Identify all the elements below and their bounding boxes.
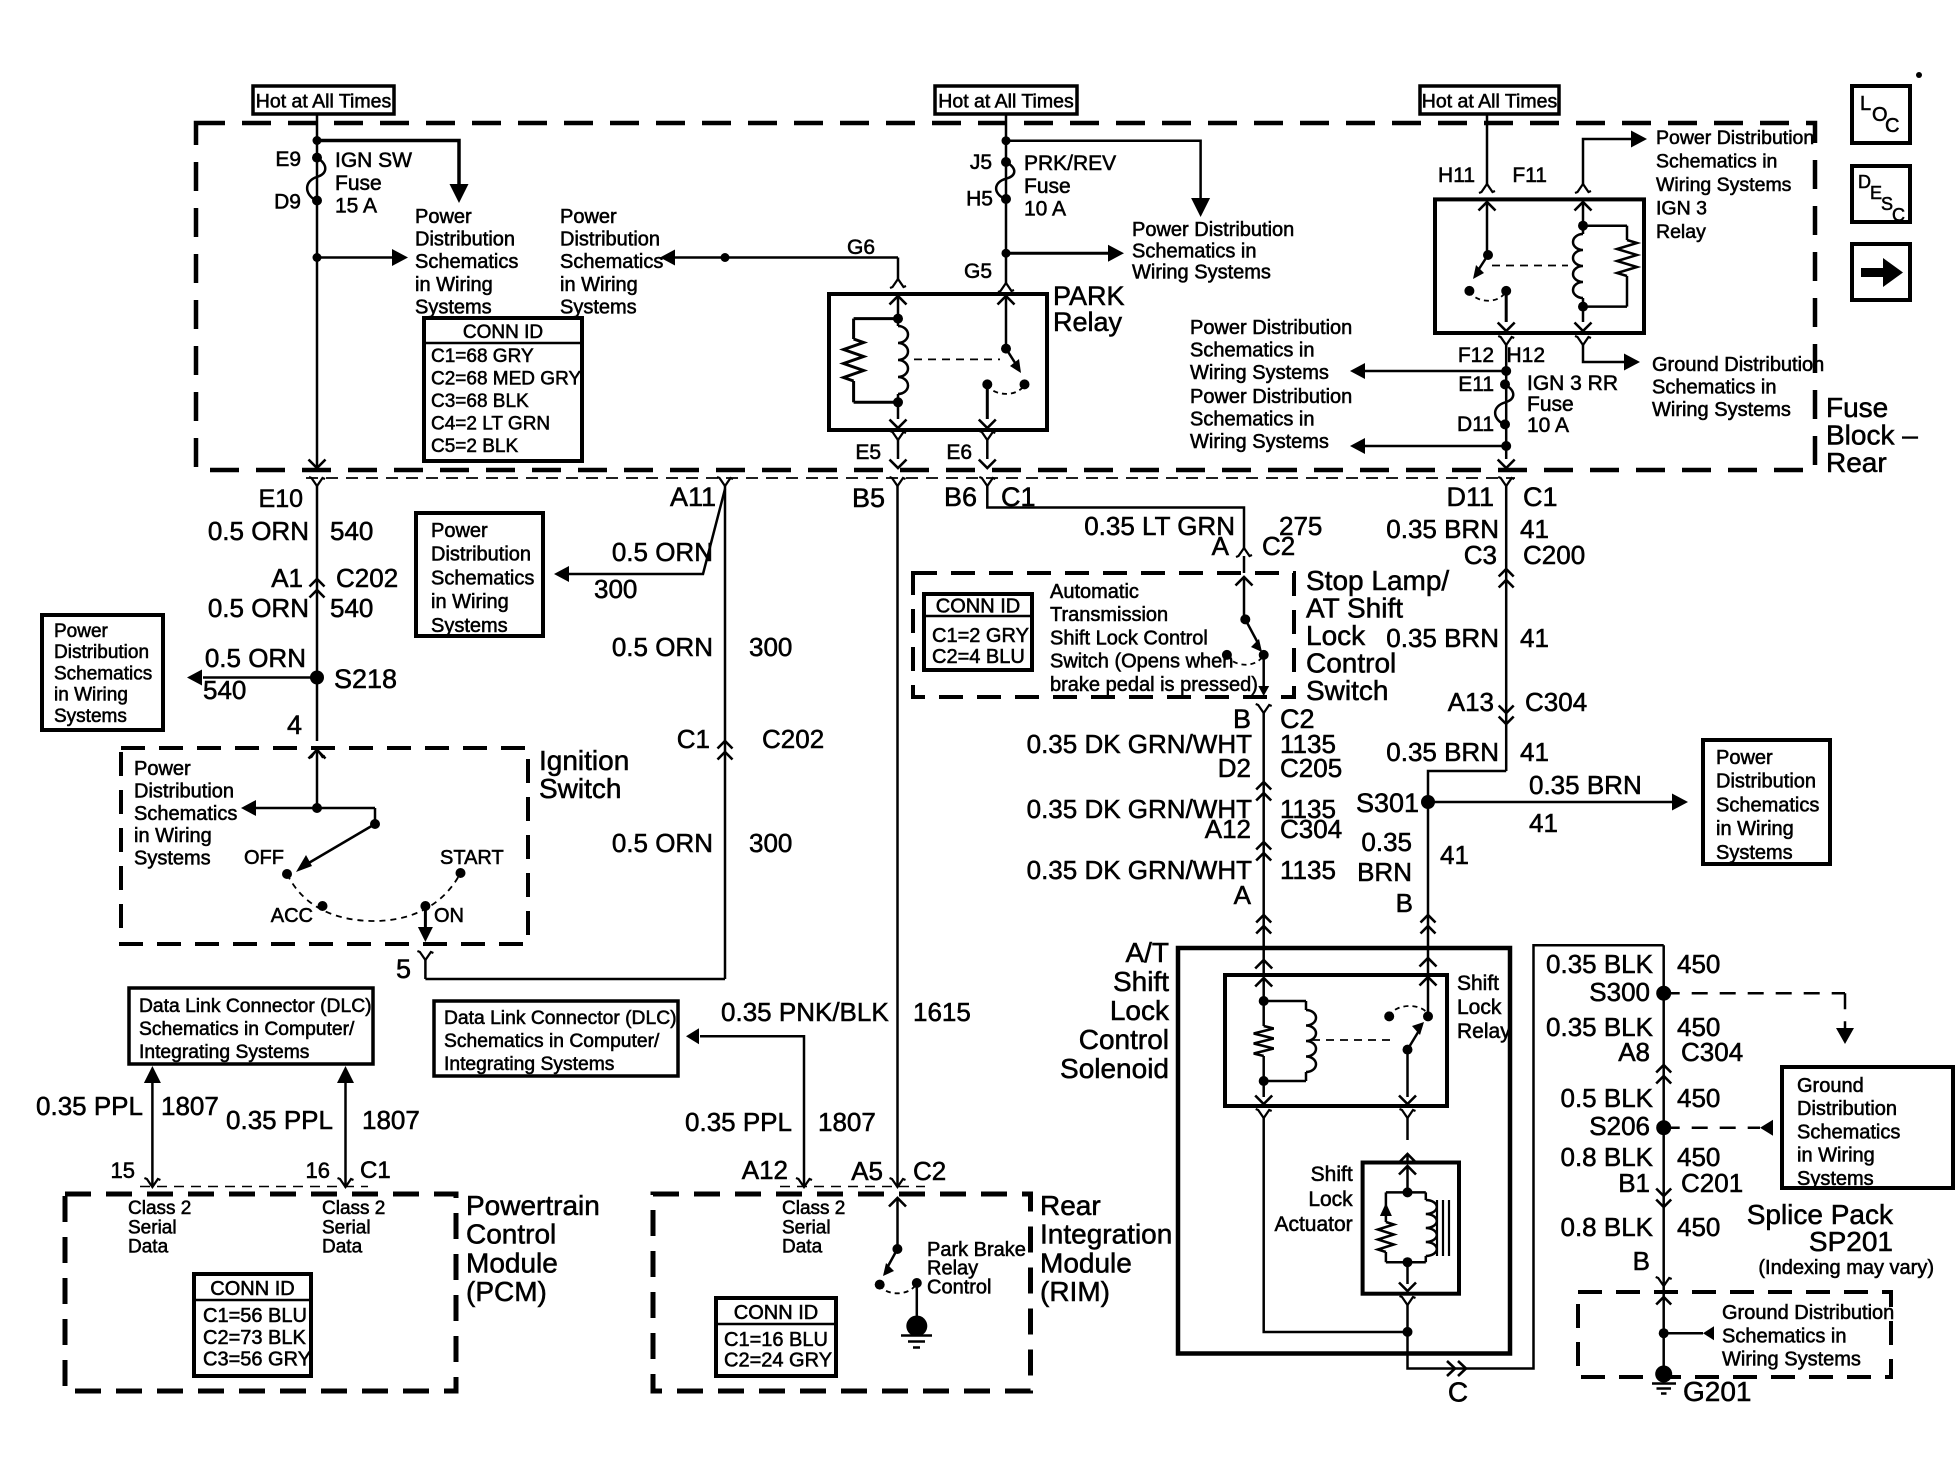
svg-text:Fuse: Fuse	[335, 172, 382, 195]
svg-text:41: 41	[1520, 623, 1549, 653]
svg-text:Fuse: Fuse	[1826, 392, 1888, 423]
svg-text:ON: ON	[434, 905, 464, 927]
svg-text:in Wiring: in Wiring	[1797, 1145, 1875, 1167]
svg-text:Integration: Integration	[1040, 1219, 1172, 1250]
svg-text:Stop Lamp/: Stop Lamp/	[1306, 565, 1449, 596]
svg-text:C1=16 BLU: C1=16 BLU	[724, 1329, 828, 1351]
svg-text:PRK/REV: PRK/REV	[1024, 152, 1116, 175]
svg-text:C1: C1	[677, 724, 710, 754]
svg-text:C1=2 GRY: C1=2 GRY	[932, 625, 1029, 647]
svg-text:J5: J5	[970, 151, 992, 174]
svg-text:Wiring Systems: Wiring Systems	[1190, 362, 1329, 384]
svg-text:C202: C202	[336, 563, 398, 593]
svg-text:C1: C1	[360, 1157, 391, 1184]
svg-text:Ground Distribution: Ground Distribution	[1652, 354, 1824, 376]
svg-text:Fuse: Fuse	[1527, 393, 1574, 416]
svg-text:C1: C1	[1523, 482, 1558, 512]
svg-text:Wiring Systems: Wiring Systems	[1132, 262, 1271, 284]
svg-text:in Wiring: in Wiring	[431, 591, 509, 613]
svg-text:Power Distribution: Power Distribution	[1656, 127, 1814, 149]
svg-text:Serial: Serial	[128, 1217, 177, 1238]
svg-text:D2: D2	[1218, 753, 1251, 783]
svg-text:Systems: Systems	[54, 706, 127, 727]
svg-text:300: 300	[749, 632, 792, 662]
svg-text:Power Distribution: Power Distribution	[1190, 386, 1352, 408]
svg-text:C4=2 LT GRN: C4=2 LT GRN	[431, 414, 550, 435]
svg-text:in Wiring: in Wiring	[415, 274, 493, 296]
svg-text:Fuse: Fuse	[1024, 175, 1071, 198]
svg-text:Data: Data	[128, 1237, 169, 1258]
svg-text:S301: S301	[1356, 788, 1419, 818]
svg-text:Schematics: Schematics	[1716, 794, 1819, 816]
svg-text:E6: E6	[946, 441, 972, 464]
svg-text:CONN ID: CONN ID	[210, 1278, 294, 1300]
svg-text:S206: S206	[1589, 1111, 1650, 1141]
svg-text:1807: 1807	[362, 1105, 420, 1135]
svg-text:Integrating Systems: Integrating Systems	[139, 1042, 309, 1063]
svg-text:Schematics: Schematics	[134, 803, 237, 825]
svg-text:S218: S218	[334, 664, 397, 694]
svg-text:15 A: 15 A	[335, 195, 377, 218]
svg-text:C304: C304	[1280, 814, 1342, 844]
svg-text:Serial: Serial	[322, 1217, 371, 1238]
svg-text:300: 300	[749, 828, 792, 858]
svg-text:Distribution: Distribution	[415, 229, 515, 251]
svg-text:A8: A8	[1618, 1037, 1650, 1067]
svg-text:0.35 DK GRN/WHT: 0.35 DK GRN/WHT	[1027, 855, 1252, 885]
svg-text:C5=2 BLK: C5=2 BLK	[431, 436, 518, 457]
svg-text:F12: F12	[1458, 344, 1494, 367]
svg-text:Schematics: Schematics	[431, 567, 534, 589]
svg-text:16: 16	[306, 1158, 330, 1183]
svg-text:0.35: 0.35	[1361, 827, 1412, 857]
svg-text:540: 540	[330, 516, 373, 546]
svg-text:Schematics in: Schematics in	[1722, 1325, 1847, 1347]
svg-text:C2: C2	[913, 1156, 946, 1186]
svg-text:Shift: Shift	[1311, 1163, 1353, 1186]
svg-text:Control: Control	[1079, 1024, 1169, 1055]
svg-text:Schematics in: Schematics in	[1656, 151, 1777, 173]
svg-text:Switch (Opens when: Switch (Opens when	[1050, 651, 1233, 673]
svg-text:Power Distribution: Power Distribution	[1132, 219, 1294, 241]
svg-text:Schematics in Computer/: Schematics in Computer/	[139, 1019, 355, 1040]
svg-text:0.35 PPL: 0.35 PPL	[226, 1105, 333, 1135]
svg-text:15: 15	[111, 1158, 135, 1183]
svg-text:Shift: Shift	[1113, 966, 1169, 997]
svg-text:Module: Module	[1040, 1247, 1132, 1278]
svg-text:5: 5	[396, 954, 411, 984]
svg-text:C2=24 GRY: C2=24 GRY	[724, 1350, 832, 1372]
svg-text:IGN SW: IGN SW	[335, 149, 412, 172]
svg-text:Actuator: Actuator	[1274, 1213, 1352, 1236]
svg-text:0.5 ORN: 0.5 ORN	[612, 828, 713, 858]
svg-text:E9: E9	[275, 148, 301, 171]
svg-text:B1: B1	[1618, 1168, 1650, 1198]
svg-text:Powertrain: Powertrain	[466, 1190, 600, 1221]
svg-text:Solenoid: Solenoid	[1060, 1053, 1169, 1084]
svg-text:Data: Data	[782, 1237, 823, 1258]
svg-text:Data: Data	[322, 1237, 363, 1258]
svg-text:CONN ID: CONN ID	[734, 1302, 818, 1324]
svg-text:C3=68 BLK: C3=68 BLK	[431, 391, 529, 412]
svg-text:Wiring Systems: Wiring Systems	[1190, 431, 1329, 453]
svg-text:H5: H5	[966, 188, 993, 211]
svg-text:A: A	[1234, 880, 1252, 910]
svg-text:540: 540	[203, 675, 246, 705]
svg-text:ACC: ACC	[271, 905, 313, 927]
svg-text:(RIM): (RIM)	[1040, 1276, 1110, 1307]
svg-text:0.35 BLK: 0.35 BLK	[1546, 949, 1654, 979]
svg-text:1615: 1615	[913, 997, 971, 1027]
svg-text:0.5 ORN: 0.5 ORN	[612, 632, 713, 662]
svg-text:0.35 BRN: 0.35 BRN	[1386, 623, 1499, 653]
svg-text:Schematics: Schematics	[415, 251, 518, 273]
svg-text:brake pedal is pressed): brake pedal is pressed)	[1050, 674, 1258, 696]
svg-text:Schematics in: Schematics in	[1132, 240, 1257, 262]
svg-text:Schematics in Computer/: Schematics in Computer/	[444, 1031, 660, 1052]
svg-text:Hot at All Times: Hot at All Times	[1422, 91, 1558, 113]
svg-text:Systems: Systems	[415, 296, 492, 318]
svg-text:C205: C205	[1280, 753, 1342, 783]
svg-text:Systems: Systems	[1716, 842, 1793, 864]
svg-text:0.35 PPL: 0.35 PPL	[685, 1107, 792, 1137]
svg-text:Distribution: Distribution	[431, 544, 531, 566]
svg-text:0.5 ORN: 0.5 ORN	[208, 516, 309, 546]
svg-text:in Wiring: in Wiring	[54, 685, 128, 706]
svg-text:A: A	[1212, 531, 1230, 561]
svg-text:Power: Power	[54, 621, 109, 642]
svg-text:C: C	[1885, 115, 1899, 137]
svg-text:Schematics: Schematics	[1797, 1121, 1900, 1143]
svg-text:Shift: Shift	[1457, 972, 1499, 995]
svg-text:C200: C200	[1523, 540, 1585, 570]
svg-text:Relay: Relay	[1053, 307, 1123, 337]
svg-text:Serial: Serial	[782, 1217, 831, 1238]
svg-text:C2: C2	[1262, 531, 1295, 561]
svg-text:450: 450	[1677, 1083, 1720, 1113]
svg-text:C2=68 MED GRY: C2=68 MED GRY	[431, 369, 581, 390]
svg-text:Ground Distribution: Ground Distribution	[1722, 1302, 1894, 1324]
svg-text:Class 2: Class 2	[128, 1198, 191, 1219]
svg-text:CONN ID: CONN ID	[936, 596, 1020, 618]
svg-text:Automatic: Automatic	[1050, 581, 1139, 603]
svg-text:Data Link Connector (DLC): Data Link Connector (DLC)	[139, 996, 372, 1017]
svg-text:A11: A11	[670, 482, 716, 512]
svg-text:Lock: Lock	[1457, 996, 1502, 1019]
svg-text:G6: G6	[847, 236, 875, 259]
svg-text:E11: E11	[1458, 373, 1494, 396]
svg-text:Ground: Ground	[1797, 1075, 1864, 1097]
svg-text:Ignition: Ignition	[539, 745, 629, 776]
svg-text:Systems: Systems	[431, 615, 508, 637]
svg-text:BRN: BRN	[1357, 857, 1412, 887]
svg-text:Lock: Lock	[1306, 620, 1366, 651]
svg-text:B6: B6	[944, 482, 977, 512]
svg-text:1807: 1807	[818, 1107, 876, 1137]
svg-text:C: C	[1892, 205, 1905, 225]
svg-text:Lock: Lock	[1308, 1188, 1353, 1211]
svg-text:C: C	[1448, 1377, 1468, 1408]
svg-text:SP201: SP201	[1809, 1226, 1893, 1257]
svg-text:Power: Power	[431, 520, 488, 542]
svg-text:G5: G5	[964, 260, 992, 283]
svg-text:A1: A1	[271, 563, 303, 593]
svg-text:Power: Power	[415, 206, 472, 228]
svg-text:A5: A5	[851, 1156, 883, 1186]
svg-text:Wiring Systems: Wiring Systems	[1656, 174, 1792, 196]
svg-text:Schematics in: Schematics in	[1652, 376, 1777, 398]
svg-text:Schematics: Schematics	[560, 251, 663, 273]
svg-text:D11: D11	[1446, 482, 1494, 512]
svg-text:Module: Module	[466, 1247, 558, 1278]
svg-text:Distribution: Distribution	[1797, 1098, 1897, 1120]
svg-text:41: 41	[1520, 737, 1549, 767]
svg-text:D9: D9	[274, 191, 301, 214]
svg-text:Lock: Lock	[1110, 995, 1170, 1026]
svg-text:H12: H12	[1506, 344, 1545, 367]
svg-text:in Wiring: in Wiring	[134, 825, 212, 847]
svg-text:Control: Control	[1306, 648, 1396, 679]
svg-text:C2=4 BLU: C2=4 BLU	[932, 646, 1025, 668]
svg-text:Schematics in: Schematics in	[1190, 339, 1315, 361]
svg-text:Integrating Systems: Integrating Systems	[444, 1054, 614, 1075]
svg-text:IGN 3: IGN 3	[1656, 198, 1707, 220]
svg-text:300: 300	[594, 574, 637, 604]
svg-text:Rear: Rear	[1040, 1190, 1101, 1221]
svg-text:0.35 BRN: 0.35 BRN	[1529, 770, 1642, 800]
svg-text:Power Distribution: Power Distribution	[1190, 317, 1352, 339]
svg-text:B: B	[1633, 1246, 1650, 1276]
svg-text:in Wiring: in Wiring	[1716, 818, 1794, 840]
svg-text:S300: S300	[1589, 977, 1650, 1007]
svg-text:(PCM): (PCM)	[466, 1276, 547, 1307]
svg-text:C304: C304	[1525, 687, 1587, 717]
svg-text:Hot at All Times: Hot at All Times	[256, 91, 392, 113]
svg-text:0.5 BLK: 0.5 BLK	[1560, 1083, 1653, 1113]
svg-text:A13: A13	[1448, 687, 1494, 717]
svg-text:IGN 3 RR: IGN 3 RR	[1527, 372, 1618, 395]
svg-text:AT Shift: AT Shift	[1306, 593, 1403, 624]
svg-text:Systems: Systems	[134, 848, 211, 870]
svg-text:CONN ID: CONN ID	[463, 322, 543, 343]
svg-text:Relay: Relay	[1457, 1020, 1511, 1043]
svg-text:Distribution: Distribution	[1716, 771, 1816, 793]
svg-text:F11: F11	[1512, 164, 1547, 187]
svg-text:Block –: Block –	[1826, 420, 1918, 451]
svg-text:Relay: Relay	[1656, 221, 1706, 243]
svg-text:Shift Lock Control: Shift Lock Control	[1050, 627, 1208, 649]
svg-text:Switch: Switch	[539, 773, 621, 804]
svg-text:Systems: Systems	[1797, 1168, 1874, 1190]
svg-text:Power: Power	[134, 758, 191, 780]
svg-text:E10: E10	[259, 485, 303, 513]
svg-text:540: 540	[330, 593, 373, 623]
svg-text:Power: Power	[560, 206, 617, 228]
svg-text:0.5 ORN: 0.5 ORN	[612, 537, 713, 567]
svg-text:C3=56 GRY: C3=56 GRY	[203, 1349, 311, 1371]
svg-text:Distribution: Distribution	[54, 642, 149, 663]
svg-text:Hot at All Times: Hot at All Times	[938, 91, 1074, 113]
svg-text:Class 2: Class 2	[322, 1198, 385, 1219]
svg-text:Switch: Switch	[1306, 675, 1388, 706]
svg-text:Rear: Rear	[1826, 447, 1887, 478]
svg-text:C201: C201	[1681, 1168, 1743, 1198]
svg-text:Distribution: Distribution	[134, 780, 234, 802]
svg-text:41: 41	[1440, 840, 1469, 870]
svg-text:C304: C304	[1681, 1037, 1743, 1067]
svg-text:C1=56 BLU: C1=56 BLU	[203, 1305, 307, 1327]
svg-text:Schematics: Schematics	[54, 663, 152, 684]
svg-text:0.5 ORN: 0.5 ORN	[208, 593, 309, 623]
svg-text:Data Link Connector (DLC): Data Link Connector (DLC)	[444, 1008, 677, 1029]
svg-text:START: START	[440, 847, 504, 869]
svg-text:Control: Control	[927, 1276, 991, 1298]
svg-text:0.5 ORN: 0.5 ORN	[205, 643, 306, 673]
svg-text:10 A: 10 A	[1527, 414, 1569, 437]
svg-text:C1=68 GRY: C1=68 GRY	[431, 346, 534, 367]
svg-text:L: L	[1860, 93, 1871, 115]
svg-text:B: B	[1396, 888, 1413, 918]
svg-text:450: 450	[1677, 1212, 1720, 1242]
svg-text:41: 41	[1529, 808, 1558, 838]
svg-text:10 A: 10 A	[1024, 198, 1066, 221]
svg-text:4: 4	[287, 710, 302, 740]
svg-text:Wiring Systems: Wiring Systems	[1652, 399, 1791, 421]
svg-text:B5: B5	[852, 483, 885, 513]
svg-text:in Wiring: in Wiring	[560, 274, 638, 296]
svg-text:E5: E5	[855, 441, 881, 464]
svg-text:OFF: OFF	[244, 847, 284, 869]
svg-text:Transmission: Transmission	[1050, 604, 1168, 626]
svg-text:450: 450	[1677, 949, 1720, 979]
svg-text:Power: Power	[1716, 747, 1773, 769]
svg-text:Wiring Systems: Wiring Systems	[1722, 1349, 1861, 1371]
svg-text:1135: 1135	[1280, 855, 1336, 885]
svg-text:C2=73 BLK: C2=73 BLK	[203, 1327, 307, 1349]
svg-text:0.35 BRN: 0.35 BRN	[1386, 737, 1499, 767]
svg-text:Class 2: Class 2	[782, 1198, 845, 1219]
svg-text:G201: G201	[1683, 1376, 1752, 1407]
svg-text:(Indexing may vary): (Indexing may vary)	[1758, 1257, 1934, 1279]
svg-text:Distribution: Distribution	[560, 229, 660, 251]
svg-text:A12: A12	[1205, 814, 1251, 844]
svg-text:C202: C202	[762, 724, 824, 754]
svg-text:Schematics in: Schematics in	[1190, 408, 1315, 430]
svg-text:Control: Control	[466, 1219, 556, 1250]
svg-text:C3: C3	[1464, 540, 1497, 570]
svg-text:D11: D11	[1457, 413, 1494, 436]
svg-text:A12: A12	[742, 1155, 788, 1185]
svg-text:Systems: Systems	[560, 296, 637, 318]
svg-text:0.35 PNK/BLK: 0.35 PNK/BLK	[721, 997, 889, 1027]
svg-text:0.35 PPL: 0.35 PPL	[36, 1091, 143, 1121]
svg-text:A/T: A/T	[1125, 937, 1169, 968]
svg-text:H11: H11	[1438, 164, 1475, 187]
svg-text:1807: 1807	[161, 1091, 219, 1121]
svg-text:0.8 BLK: 0.8 BLK	[1560, 1212, 1653, 1242]
